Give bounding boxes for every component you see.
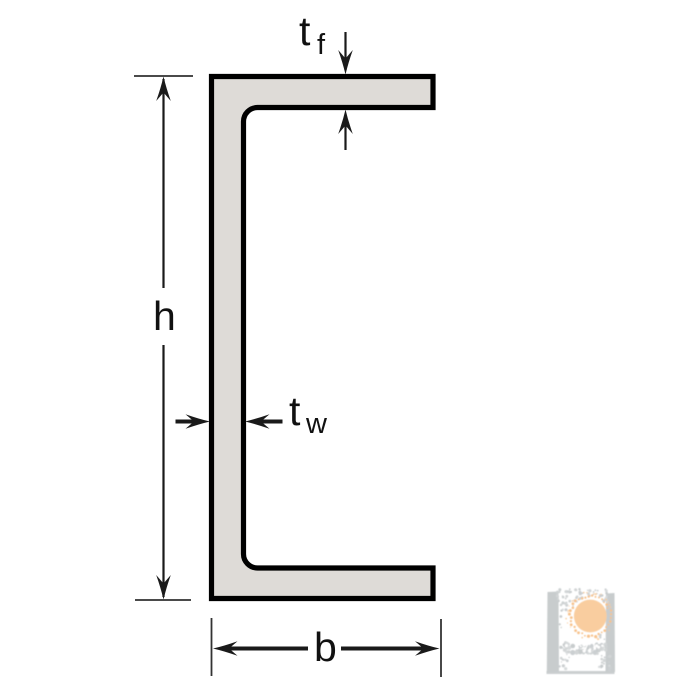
svg-text:h: h — [153, 293, 176, 339]
svg-text:b: b — [314, 624, 337, 670]
svg-text:w: w — [305, 408, 328, 440]
svg-text:t: t — [299, 8, 311, 54]
svg-text:t: t — [289, 388, 301, 434]
svg-text:f: f — [317, 29, 326, 61]
